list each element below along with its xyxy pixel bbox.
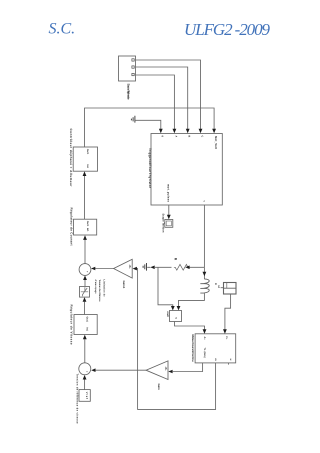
controller block	[73, 147, 97, 171]
svg-text:mot_pulses: mot_pulses	[167, 184, 171, 202]
source block U1	[119, 56, 136, 81]
converter block U2	[151, 134, 222, 206]
ground G2	[143, 263, 146, 271]
wire gain output to sum2	[95, 369, 146, 371]
scope block	[165, 220, 173, 228]
arrowhead into controller	[83, 171, 87, 176]
svg-text:Tension de référence: Tension de référence	[98, 280, 101, 303]
svg-text:Scope Tension: Scope Tension	[161, 214, 164, 233]
ground G1	[131, 116, 135, 123]
arrowheads resistor line	[185, 266, 189, 270]
wire current reg to controller	[84, 176, 86, 219]
mult block	[170, 311, 182, 322]
svg-text:Tension de référence de vitess: Tension de référence de vitesse	[76, 374, 79, 425]
svg-text:TriggeredFourThyristor: TriggeredFourThyristor	[148, 148, 152, 189]
wire speed reg to saturation	[84, 302, 86, 315]
vref block	[79, 390, 90, 402]
wire source port1	[136, 60, 201, 129]
machine block M1	[195, 334, 236, 363]
wire machine to gain	[173, 363, 203, 372]
current regulator block	[74, 219, 97, 235]
svg-text:Out1: Out1	[86, 149, 89, 155]
arrowhead into scope	[167, 215, 171, 220]
wire resistor line	[147, 266, 204, 268]
arrowhead gain to sum2	[91, 368, 95, 372]
svg-text:w: w	[229, 359, 232, 361]
svg-text:Out1: Out1	[86, 221, 89, 227]
wire inductor to mult	[179, 293, 205, 306]
svg-text:C: C	[201, 136, 204, 138]
speed regulator block	[74, 315, 97, 335]
wire converter output down	[203, 205, 205, 267]
arrowhead inductor	[203, 272, 207, 277]
wire speed feedback	[137, 269, 216, 410]
arrowhead into sum2 bottom	[83, 375, 87, 380]
svg-text:TL (Nm): TL (Nm)	[203, 348, 206, 358]
inductor L	[200, 279, 209, 293]
svg-text:Out1: Out1	[86, 317, 89, 323]
display block	[224, 283, 237, 295]
wire converter to scope	[168, 205, 170, 215]
sum2 circle	[79, 363, 91, 375]
machine stub	[228, 363, 230, 365]
wire source port2	[136, 67, 188, 129]
sum1 circle	[79, 264, 91, 276]
wire pulses	[85, 108, 215, 147]
svg-text:A: A	[174, 136, 177, 138]
wire mult to machine	[175, 322, 205, 330]
source port marks	[132, 59, 134, 61]
svg-text:S.C.: S.C.	[49, 21, 76, 38]
arrowhead into current regulator	[83, 235, 87, 240]
gain1 triangle	[114, 259, 133, 278]
wire source port3	[136, 75, 175, 129]
wire sum2 to speed regulator	[84, 339, 86, 363]
wire ground G1 to converter	[135, 120, 161, 129]
svg-text:d'amorçage: d'amorçage	[94, 280, 97, 295]
arrowheads into converter top	[159, 129, 163, 134]
svg-text:m: m	[214, 359, 217, 361]
arrowhead into speed regulator	[83, 335, 87, 340]
svg-text:Vref: Vref	[85, 392, 88, 399]
svg-text:Limitation de: Limitation de	[102, 280, 105, 298]
svg-text:-K-: -K-	[128, 265, 132, 269]
svg-text:ULFG2 -2009: ULFG2 -2009	[184, 20, 271, 39]
wire junction drop to mult	[158, 267, 173, 306]
gain triangle	[146, 361, 168, 380]
svg-text:-K-: -K-	[164, 367, 168, 371]
svg-text:Contrôleur déphasé + Allumeur: Contrôleur déphasé + Allumeur	[69, 129, 73, 188]
svg-text:B: B	[188, 136, 191, 138]
arrowhead into sum1 bottom	[83, 276, 87, 281]
resistor R	[174, 264, 189, 270]
arrowhead gain1 to sum1	[91, 267, 95, 271]
svg-text:mult: mult	[166, 312, 169, 318]
saturation block	[80, 287, 90, 298]
wire gain1 output to sum1	[95, 268, 113, 270]
svg-text:Régulateur de Courant: Régulateur de Courant	[70, 208, 74, 246]
svg-text:Source Triphasée: Source Triphasée	[126, 84, 130, 100]
svg-text:Gain1: Gain1	[122, 281, 126, 289]
wire to inductor	[203, 267, 205, 279]
arrowhead into saturation	[83, 297, 87, 302]
svg-text:Gain: Gain	[157, 384, 161, 391]
svg-text:MoteurCourantContinu: MoteurCourantContinu	[191, 335, 194, 362]
arrowhead into gain1	[133, 267, 137, 271]
wire display to machine	[225, 294, 231, 330]
wire vref to sum2	[84, 379, 86, 389]
wire saturation to sum1	[84, 280, 86, 287]
arrowhead into gain	[168, 370, 172, 374]
svg-text:Régulateur de Vitesse: Régulateur de Vitesse	[70, 305, 74, 345]
wire sum1 to current regulator	[84, 240, 86, 264]
arrowheads into mult	[171, 306, 175, 310]
arrowheads into machine	[203, 329, 207, 334]
svg-text:Mot_Volt: Mot_Volt	[214, 136, 218, 149]
